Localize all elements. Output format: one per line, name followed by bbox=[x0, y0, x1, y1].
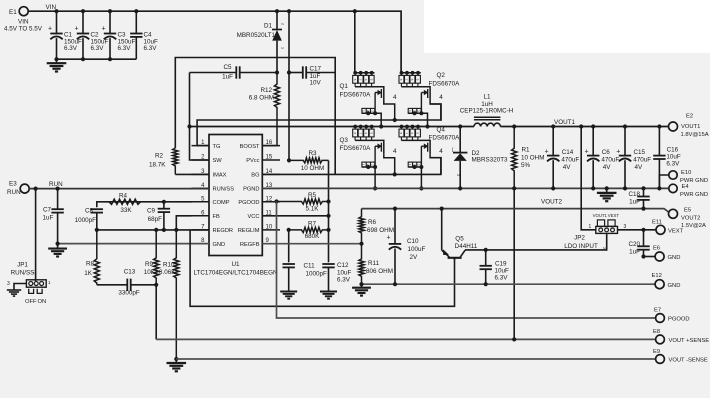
svg-text:C3: C3 bbox=[118, 32, 127, 39]
capacitor C6 bbox=[587, 127, 599, 189]
svg-text:1.5V@2A: 1.5V@2A bbox=[681, 223, 706, 229]
svg-text:+: + bbox=[48, 26, 52, 33]
svg-text:FDS6670A: FDS6670A bbox=[429, 81, 461, 88]
svg-text:C4: C4 bbox=[144, 32, 153, 39]
transistor Q5 D44H11 bbox=[442, 209, 465, 260]
wire E6 lead bbox=[644, 256, 656, 258]
svg-text:E7: E7 bbox=[654, 308, 661, 314]
junction dot C20 top bbox=[641, 228, 645, 232]
capacitor C9 bbox=[158, 202, 170, 230]
svg-text:6.3V: 6.3V bbox=[144, 45, 158, 52]
svg-text:100uF: 100uF bbox=[408, 246, 426, 253]
inductor L1 bbox=[474, 117, 501, 126]
svg-text:VIN: VIN bbox=[18, 19, 29, 26]
junction dots gate BG bbox=[393, 172, 397, 176]
svg-text:MBRS320T3: MBRS320T3 bbox=[472, 156, 509, 163]
svg-text:1K: 1K bbox=[84, 270, 93, 277]
svg-text:1000pF: 1000pF bbox=[306, 270, 328, 277]
svg-text:1000pF: 1000pF bbox=[75, 217, 97, 224]
svg-text:470uF: 470uF bbox=[633, 157, 651, 164]
svg-text:18.7K: 18.7K bbox=[149, 162, 166, 169]
svg-text:C12: C12 bbox=[337, 262, 349, 269]
svg-text:68pF: 68pF bbox=[148, 216, 163, 223]
svg-text:E2: E2 bbox=[686, 114, 693, 120]
svg-text:C2: C2 bbox=[91, 32, 100, 39]
wire +SENSE drop bbox=[155, 285, 157, 340]
svg-text:1uF: 1uF bbox=[629, 199, 640, 206]
svg-text:C20: C20 bbox=[628, 241, 640, 248]
ground R11 bbox=[352, 284, 371, 295]
svg-text:6.3V: 6.3V bbox=[666, 161, 680, 168]
junction dot C9 top bbox=[162, 200, 166, 204]
terminal E3 RUN bbox=[20, 184, 29, 193]
resistor R4 bbox=[109, 199, 141, 204]
svg-text:4: 4 bbox=[393, 148, 397, 155]
svg-text:JP1: JP1 bbox=[17, 262, 28, 269]
ground JP1 bbox=[7, 287, 21, 296]
svg-text:2V: 2V bbox=[410, 254, 419, 261]
svg-text:COMP: COMP bbox=[213, 200, 230, 206]
junction dots VOUT2 bbox=[393, 207, 646, 211]
svg-text:C10: C10 bbox=[407, 238, 419, 245]
wire FB elbow bbox=[176, 216, 191, 230]
wire input cap ground rail bbox=[57, 58, 137, 60]
svg-text:Q1: Q1 bbox=[340, 83, 349, 90]
svg-text:REGDR: REGDR bbox=[213, 228, 234, 234]
svg-text:Q3: Q3 bbox=[340, 137, 349, 144]
svg-text:C11: C11 bbox=[304, 263, 316, 270]
wire VCC pin bbox=[262, 215, 328, 217]
capacitor C11 bbox=[283, 264, 295, 290]
capacitor C17 bbox=[289, 66, 335, 78]
svg-text:6.3V: 6.3V bbox=[91, 45, 105, 52]
svg-text:4.5V TO 5.5V: 4.5V TO 5.5V bbox=[4, 26, 43, 33]
svg-text:FDS6670A: FDS6670A bbox=[340, 145, 372, 152]
svg-text:L1: L1 bbox=[483, 94, 491, 101]
svg-text:C5: C5 bbox=[223, 64, 232, 71]
capacitor C15 bbox=[619, 127, 631, 189]
svg-text:+: + bbox=[387, 235, 391, 242]
junction dot -SENSE gnd bbox=[174, 357, 178, 361]
svg-text:VOUT1: VOUT1 bbox=[554, 119, 575, 126]
svg-text:E8: E8 bbox=[653, 329, 660, 335]
wire BOOST bbox=[262, 145, 277, 147]
capacitor C7 bbox=[51, 189, 63, 244]
svg-text:VEXT: VEXT bbox=[668, 228, 684, 234]
svg-text:IMAX: IMAX bbox=[213, 173, 227, 179]
svg-text:1uF: 1uF bbox=[43, 215, 54, 222]
svg-text:VEXT: VEXT bbox=[608, 213, 620, 218]
capacitor C20 bbox=[637, 230, 649, 257]
svg-text:4: 4 bbox=[439, 148, 443, 155]
resistor R8 bbox=[94, 230, 99, 285]
junction dot SW/C5 bbox=[187, 124, 191, 128]
svg-text:VIN: VIN bbox=[46, 4, 57, 11]
svg-text:D44H11: D44H11 bbox=[455, 243, 478, 250]
svg-text:10 OHM: 10 OHM bbox=[301, 165, 324, 172]
svg-text:4: 4 bbox=[439, 94, 443, 101]
svg-text:1uF: 1uF bbox=[222, 74, 233, 81]
svg-text:E11: E11 bbox=[652, 220, 662, 226]
junction dot C7 ground bbox=[56, 242, 60, 246]
resistor R10 bbox=[174, 230, 179, 359]
wire R1 sense vertical bbox=[513, 188, 515, 339]
svg-text:JP2: JP2 bbox=[574, 235, 585, 242]
svg-text:RUN: RUN bbox=[7, 189, 21, 196]
svg-text:C1: C1 bbox=[64, 32, 73, 39]
svg-text:R6: R6 bbox=[368, 219, 377, 226]
svg-text:R2: R2 bbox=[155, 153, 164, 160]
svg-text:6.8 OHM: 6.8 OHM bbox=[249, 95, 274, 102]
jumper JP1 shunt marks bbox=[29, 289, 42, 294]
U1 left pin stubs bbox=[192, 146, 210, 244]
capacitor C3 bbox=[104, 11, 116, 59]
svg-text:5%: 5% bbox=[521, 162, 531, 169]
resistor R1 bbox=[512, 127, 517, 189]
wire Q5 collector to JP2 bbox=[465, 234, 607, 250]
wire VOUT -SENSE line bbox=[176, 358, 655, 360]
junction dots PGND rail bbox=[458, 186, 661, 190]
svg-text:+: + bbox=[616, 149, 620, 156]
svg-text:VOUT1: VOUT1 bbox=[593, 213, 608, 218]
svg-text:FB: FB bbox=[213, 214, 220, 220]
wire BG bbox=[262, 158, 441, 175]
resistor R3 bbox=[289, 158, 329, 163]
svg-text:1: 1 bbox=[589, 224, 592, 230]
svg-text:4: 4 bbox=[393, 94, 397, 101]
svg-text:+: + bbox=[585, 149, 589, 156]
svg-text:E9: E9 bbox=[653, 349, 660, 355]
junction dot +SENSE bbox=[512, 337, 516, 341]
svg-text:VOUT1: VOUT1 bbox=[681, 124, 700, 130]
svg-text:FDS6670A: FDS6670A bbox=[340, 91, 372, 98]
svg-text:E6: E6 bbox=[653, 246, 660, 252]
svg-text:+: + bbox=[545, 149, 549, 156]
svg-text:PVcc: PVcc bbox=[246, 158, 259, 164]
capacitor C1 bbox=[50, 11, 62, 59]
svg-text:GND: GND bbox=[213, 242, 226, 248]
svg-text:U1: U1 bbox=[231, 261, 240, 268]
terminal E9 -SENSE bbox=[656, 355, 665, 364]
junction dots source drops SW bbox=[379, 124, 430, 128]
wire REGDR vertical bbox=[190, 230, 454, 306]
wire JP2 pin3 to VEXT bbox=[618, 229, 657, 231]
svg-text:4V: 4V bbox=[563, 164, 572, 171]
svg-text:1uF: 1uF bbox=[629, 248, 640, 255]
wire TG bbox=[197, 104, 441, 146]
svg-text:470uF: 470uF bbox=[601, 157, 619, 164]
terminal E7 PGOOD bbox=[656, 314, 665, 323]
svg-text:C17: C17 bbox=[310, 66, 322, 73]
wire GND row bbox=[58, 243, 209, 245]
svg-text:R12: R12 bbox=[260, 87, 272, 94]
svg-text:10uF: 10uF bbox=[666, 154, 681, 161]
wire VOUT +SENSE line bbox=[156, 338, 655, 340]
wire C17 right to R2 top bbox=[175, 58, 335, 175]
wire PGOOD drop bbox=[277, 202, 656, 319]
svg-text:SW: SW bbox=[213, 158, 223, 164]
svg-text:R5: R5 bbox=[308, 192, 317, 199]
svg-text:MBR0520LT1: MBR0520LT1 bbox=[237, 32, 276, 39]
wire JP1 vertical bbox=[35, 189, 37, 281]
svg-text:10uF: 10uF bbox=[337, 270, 352, 277]
svg-text:LDO INPUT: LDO INPUT bbox=[564, 243, 598, 250]
wire E10 branch bbox=[659, 175, 668, 188]
resistor R12 bbox=[274, 73, 279, 146]
svg-text:OFF: OFF bbox=[25, 299, 37, 305]
svg-text:E1: E1 bbox=[9, 9, 17, 16]
U1 right pin stubs bbox=[262, 146, 280, 244]
resistor R7 bbox=[289, 227, 329, 232]
transistor Q2 FDS6670A bbox=[399, 71, 443, 127]
terminal E4 PWR GND bbox=[669, 184, 677, 192]
wire VIN rail bbox=[28, 11, 401, 73]
ground C11 bbox=[280, 290, 297, 299]
svg-text:Q5: Q5 bbox=[455, 236, 464, 243]
transistor Q3 FDS6670A bbox=[353, 125, 397, 189]
terminal E2 VOUT1 bbox=[669, 122, 678, 131]
resistor R9 bbox=[154, 230, 159, 285]
wire comp/REGDR row bbox=[97, 229, 209, 231]
capacitor C14 bbox=[547, 127, 559, 189]
capacitor C18 bbox=[637, 188, 649, 208]
terminal E6 GND bbox=[655, 252, 664, 261]
wire PVcc vertical bbox=[288, 11, 290, 160]
wire D1 top lead bbox=[276, 11, 278, 29]
svg-text:C6: C6 bbox=[602, 149, 611, 156]
capacitor C19 bbox=[480, 250, 492, 284]
ground input caps bbox=[47, 59, 67, 71]
wire COMP row bbox=[97, 202, 192, 207]
svg-text:15: 15 bbox=[266, 155, 273, 161]
svg-text:C18: C18 bbox=[628, 191, 640, 198]
terminal E12 GND bbox=[655, 280, 664, 289]
svg-text:R7: R7 bbox=[308, 221, 317, 228]
svg-text:GND: GND bbox=[668, 283, 681, 289]
junction dot C17 left bbox=[287, 70, 291, 74]
terminal E1 VIN bbox=[19, 7, 28, 16]
svg-text:C9: C9 bbox=[147, 208, 156, 215]
capacitor C10 bbox=[389, 209, 401, 285]
svg-text:1: 1 bbox=[281, 47, 285, 49]
svg-text:C15: C15 bbox=[634, 149, 646, 156]
ground -SENSE bbox=[167, 359, 187, 371]
wire -SENSE/R10 bottom bbox=[175, 358, 177, 360]
junction dot R9/C13 bbox=[154, 283, 158, 287]
junction dots VOUT1 bbox=[458, 124, 661, 128]
svg-text:Q4: Q4 bbox=[437, 127, 446, 134]
capacitor C12 bbox=[322, 264, 334, 290]
svg-text:+: + bbox=[102, 26, 106, 33]
svg-text:PWR GND: PWR GND bbox=[680, 192, 708, 198]
svg-text:GND: GND bbox=[668, 255, 681, 261]
junction dots VCC net bbox=[326, 199, 330, 232]
junction dot REGFB divider bbox=[359, 242, 363, 246]
ground C12 bbox=[320, 290, 337, 299]
junction dot REGLIM bbox=[287, 228, 291, 232]
svg-text:4V: 4V bbox=[603, 164, 612, 171]
svg-text:BG: BG bbox=[251, 173, 259, 179]
svg-text:C16: C16 bbox=[667, 147, 679, 154]
resistor R2 bbox=[173, 148, 178, 174]
svg-text:CEP125-1R0MC-H: CEP125-1R0MC-H bbox=[460, 108, 514, 115]
wire VOUT1 line bbox=[500, 126, 668, 128]
svg-text:6.3V: 6.3V bbox=[118, 45, 132, 52]
svg-text:RUN/SS: RUN/SS bbox=[11, 270, 35, 277]
wire Q1 drain feed bbox=[354, 11, 356, 73]
svg-text:6.3V: 6.3V bbox=[495, 274, 509, 281]
svg-text:VOUT2: VOUT2 bbox=[541, 199, 562, 206]
junction dot D1/C5/R12 bbox=[275, 70, 279, 74]
capacitor C2 bbox=[77, 11, 89, 59]
svg-text:10V: 10V bbox=[310, 80, 322, 87]
svg-text:E10: E10 bbox=[681, 170, 691, 176]
svg-text:2: 2 bbox=[281, 23, 285, 25]
svg-text:806 OHM: 806 OHM bbox=[366, 268, 393, 275]
resistor R6 bbox=[359, 209, 364, 244]
capacitor C4 bbox=[130, 11, 142, 59]
wire REGFB row bbox=[262, 243, 361, 245]
jumper JP2 pads bbox=[597, 220, 615, 227]
svg-text:1: 1 bbox=[48, 280, 51, 285]
junction dots RUN bbox=[34, 187, 60, 191]
svg-text:2: 2 bbox=[456, 174, 460, 176]
svg-text:PGOOD: PGOOD bbox=[238, 200, 259, 206]
svg-text:1.8V@15A: 1.8V@15A bbox=[681, 132, 709, 138]
resistor R11 bbox=[359, 244, 364, 285]
svg-text:VCC: VCC bbox=[247, 214, 259, 220]
svg-text:C7: C7 bbox=[43, 207, 52, 214]
svg-text:10K: 10K bbox=[144, 269, 156, 276]
junction dots input gnd rail bbox=[54, 57, 112, 61]
wire VCC vertical bbox=[328, 160, 330, 262]
svg-text:R8: R8 bbox=[86, 261, 95, 268]
junction dot PVcc bbox=[287, 158, 291, 162]
svg-text:12: 12 bbox=[266, 196, 273, 202]
resistor R5 bbox=[277, 199, 329, 204]
svg-text:VOUT -SENSE: VOUT -SENSE bbox=[669, 358, 708, 364]
jumper JP2 header bbox=[596, 226, 618, 233]
svg-text:LTC1704EGN/LTC1704BEGN: LTC1704EGN/LTC1704BEGN bbox=[193, 270, 278, 277]
svg-text:R1: R1 bbox=[522, 147, 531, 154]
svg-text:8.06K: 8.06K bbox=[159, 269, 176, 276]
wire analog ground line bbox=[362, 283, 656, 285]
junction dots VIN rail bbox=[54, 9, 357, 13]
svg-text:ON: ON bbox=[37, 299, 46, 305]
svg-text:PGOOD: PGOOD bbox=[668, 317, 690, 323]
svg-text:C8: C8 bbox=[85, 208, 94, 215]
svg-text:TG: TG bbox=[213, 144, 221, 150]
terminal E10 PWR GND bbox=[669, 171, 677, 179]
capacitor C13 bbox=[97, 279, 156, 291]
junction dot C20 bottom bbox=[641, 254, 645, 258]
svg-text:R11: R11 bbox=[368, 260, 380, 267]
svg-text:5.1K: 5.1K bbox=[306, 206, 320, 213]
svg-text:4V: 4V bbox=[635, 164, 644, 171]
wire SW rail bbox=[190, 126, 475, 128]
wire RUN bbox=[29, 188, 209, 190]
transistor Q1 FDS6670A bbox=[353, 71, 397, 127]
wire C5 left to SW bbox=[189, 73, 191, 127]
svg-text:RUN: RUN bbox=[49, 181, 63, 188]
svg-text:C14: C14 bbox=[562, 149, 574, 156]
svg-text:680K: 680K bbox=[305, 233, 321, 240]
junction dots analog gnd bbox=[359, 282, 487, 286]
svg-text:Q2: Q2 bbox=[437, 72, 446, 79]
capacitor C5 bbox=[190, 66, 278, 78]
wire C11 vertical bbox=[288, 230, 290, 262]
svg-text:E3: E3 bbox=[9, 181, 17, 188]
junction dots source drops PGND bbox=[373, 186, 424, 190]
ground PGND rail bbox=[597, 188, 617, 201]
svg-text:+: + bbox=[75, 26, 79, 33]
diode D2 bbox=[453, 153, 467, 189]
svg-text:C13: C13 bbox=[124, 269, 136, 276]
terminal E11 VEXT bbox=[656, 225, 665, 234]
svg-text:33K: 33K bbox=[120, 207, 132, 214]
svg-text:FDS6670A: FDS6670A bbox=[429, 135, 461, 142]
wire PGND rail bbox=[262, 187, 668, 189]
svg-text:BOOST: BOOST bbox=[240, 144, 260, 150]
wire IMAX bbox=[175, 173, 209, 175]
svg-text:698 OHM: 698 OHM bbox=[367, 227, 394, 234]
svg-text:VOUT2: VOUT2 bbox=[681, 216, 700, 222]
svg-text:VOUT +SENSE: VOUT +SENSE bbox=[669, 338, 710, 344]
capacitor C16 bbox=[653, 127, 665, 189]
svg-text:10 OHM: 10 OHM bbox=[521, 154, 544, 161]
wire VOUT1 to JP2 pin1 bbox=[581, 127, 596, 230]
svg-text:470uF: 470uF bbox=[561, 157, 579, 164]
svg-text:REGFB: REGFB bbox=[240, 242, 260, 248]
svg-text:E4: E4 bbox=[682, 184, 690, 190]
ground C7 bbox=[48, 244, 67, 257]
svg-text:6.3V: 6.3V bbox=[64, 45, 78, 52]
junction dot C19 top bbox=[484, 248, 488, 252]
svg-text:R3: R3 bbox=[308, 150, 317, 157]
wire JP1 ground lead bbox=[14, 284, 26, 288]
white corner region bbox=[424, 0, 710, 53]
svg-text:3300pF: 3300pF bbox=[118, 290, 140, 297]
svg-text:RUN/SS: RUN/SS bbox=[213, 187, 235, 193]
svg-text:3: 3 bbox=[7, 281, 10, 287]
svg-text:E12: E12 bbox=[652, 273, 662, 279]
terminal E8 +SENSE bbox=[656, 335, 665, 344]
svg-text:REGLIM: REGLIM bbox=[238, 228, 260, 234]
svg-text:6.3V: 6.3V bbox=[337, 277, 351, 284]
svg-text:10: 10 bbox=[266, 224, 273, 230]
junction dot PGOOD pin bbox=[274, 199, 278, 203]
op-amp U1 LTC1704 box bbox=[209, 135, 262, 256]
svg-text:PGND: PGND bbox=[243, 187, 259, 193]
junction dots gate TG bbox=[393, 118, 397, 122]
terminal E5 VOUT2 bbox=[669, 209, 678, 218]
svg-text:R10: R10 bbox=[163, 262, 175, 269]
junction dots comp row bbox=[95, 228, 179, 232]
wire SW bbox=[190, 127, 210, 161]
jumper JP1 header bbox=[26, 280, 46, 287]
svg-text:R9: R9 bbox=[145, 261, 154, 268]
capacitor C8 bbox=[91, 209, 103, 230]
wire VOUT2 line bbox=[362, 209, 669, 212]
transistor Q4 FDS6670A bbox=[399, 125, 443, 189]
wire D2 top bbox=[459, 127, 461, 153]
svg-text:R4: R4 bbox=[119, 193, 128, 200]
svg-text:E5: E5 bbox=[684, 208, 691, 214]
diode D1 bbox=[272, 30, 282, 73]
svg-text:D1: D1 bbox=[264, 23, 273, 30]
